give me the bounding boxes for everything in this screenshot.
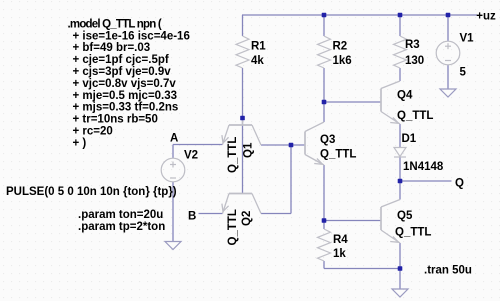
svg-text:+ tr=10ns rb=50: + tr=10ns rb=50 — [73, 114, 158, 126]
svg-text:Q3: Q3 — [320, 134, 335, 146]
svg-text:Q_TTL: Q_TTL — [397, 110, 433, 122]
svg-text:A: A — [170, 133, 178, 145]
svg-text:1k: 1k — [333, 248, 346, 260]
svg-text:1k6: 1k6 — [333, 55, 352, 67]
svg-text:1N4148: 1N4148 — [403, 161, 444, 173]
svg-text:+ ise=1e-16 isc=4e-16: + ise=1e-16 isc=4e-16 — [73, 30, 190, 42]
svg-text:D1: D1 — [402, 133, 417, 145]
svg-text:+ ): + ) — [73, 137, 87, 149]
svg-text:B: B — [188, 211, 196, 223]
svg-text:V1: V1 — [460, 32, 475, 44]
svg-text:130: 130 — [405, 55, 424, 67]
svg-text:Q_TTL: Q_TTL — [227, 209, 239, 245]
svg-text:+ rc=20: + rc=20 — [73, 126, 113, 138]
svg-text:Q4: Q4 — [397, 90, 413, 102]
svg-text:Q_TTL: Q_TTL — [395, 227, 431, 239]
svg-text:+uz: +uz — [476, 10, 496, 22]
svg-text:Q1: Q1 — [243, 142, 255, 158]
svg-text:4k: 4k — [251, 55, 264, 67]
svg-text:+ mje=0.5 mjc=0.33: + mje=0.5 mjc=0.33 — [73, 90, 178, 102]
svg-text:R3: R3 — [405, 39, 420, 51]
svg-text:+ cjs=3pf vje=0.9v: + cjs=3pf vje=0.9v — [73, 66, 172, 78]
svg-text:.model Q_TTL npn (: .model Q_TTL npn ( — [68, 18, 162, 30]
svg-text:.param tp=2*ton: .param tp=2*ton — [78, 221, 165, 233]
svg-text:.tran 50u: .tran 50u — [424, 265, 472, 277]
svg-text:R4: R4 — [333, 234, 348, 246]
svg-text:Q: Q — [455, 177, 464, 189]
svg-text:+ cje=1pf cjc=.5pf: + cje=1pf cjc=.5pf — [73, 54, 169, 66]
svg-text:.param ton=20u: .param ton=20u — [78, 209, 163, 221]
svg-text:PULSE(0 5 0 10n 10n {ton} {tp}: PULSE(0 5 0 10n 10n {ton} {tp}) — [6, 186, 177, 198]
svg-text:Q5: Q5 — [397, 210, 413, 222]
svg-text:+ bf=49 br=.03: + bf=49 br=.03 — [73, 42, 151, 54]
svg-text:+ vjc=0.8v vjs=0.7v: + vjc=0.8v vjs=0.7v — [73, 78, 177, 90]
svg-text:R1: R1 — [251, 41, 266, 53]
svg-text:5: 5 — [460, 67, 467, 79]
svg-text:R2: R2 — [333, 41, 348, 53]
svg-text:Q_TTL: Q_TTL — [227, 137, 239, 173]
svg-text:Q2: Q2 — [241, 211, 253, 226]
svg-text:+ mjs=0.33 tf=0.2ns: + mjs=0.33 tf=0.2ns — [73, 102, 179, 114]
svg-text:V2: V2 — [184, 150, 198, 162]
svg-text:Q_TTL: Q_TTL — [320, 149, 356, 161]
